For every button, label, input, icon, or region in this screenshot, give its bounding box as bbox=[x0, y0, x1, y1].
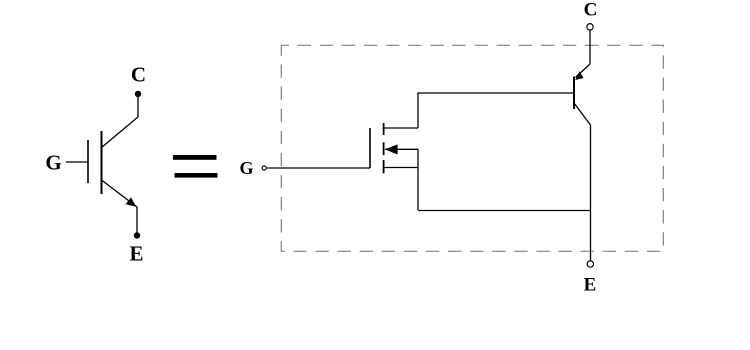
wire: IGBT collector lead bbox=[137, 94, 139, 117]
node G terminal circle bbox=[262, 166, 266, 170]
IGBT emitter arrowhead bbox=[126, 197, 137, 207]
wire: MOSFET M1 body lead bbox=[385, 148, 418, 150]
equivalence sign top bar bbox=[173, 155, 217, 160]
svg-text:C: C bbox=[131, 63, 146, 87]
wire: PNP Q1 emitter diagonal bbox=[576, 64, 591, 78]
wire: IGBT emitter lead bbox=[136, 207, 138, 235]
wire: MOSFET M1 drain lead bbox=[384, 127, 418, 129]
svg-text:G: G bbox=[45, 151, 61, 175]
svg-text:E: E bbox=[584, 275, 597, 296]
IGBT body bar bbox=[101, 131, 103, 194]
node C terminal circle bbox=[587, 24, 593, 30]
wire: bottom bus to PNP collector bbox=[418, 210, 591, 212]
MOSFET M1 gate bar bbox=[369, 128, 371, 168]
equivalence sign bottom bar bbox=[175, 173, 218, 178]
wire: PNP Q1 collector diagonal bbox=[574, 103, 591, 125]
node E terminal circle bbox=[587, 261, 593, 267]
wire: MOSFET drain to PNP base bbox=[418, 92, 573, 94]
svg-text:E: E bbox=[129, 241, 143, 265]
PNP Q1 base bar bbox=[573, 77, 575, 110]
MOSFET M1 channel segment drain bbox=[383, 123, 385, 135]
MOSFET M1 channel segment body bbox=[383, 142, 385, 155]
wire: MOSFET M1 source lead bbox=[384, 167, 418, 169]
wire: IGBT gate lead bbox=[66, 161, 88, 163]
IGBT collector terminal dot bbox=[135, 91, 141, 97]
PNP Q1 emitter arrowhead bbox=[575, 71, 583, 80]
MOSFET M1 channel segment source bbox=[383, 160, 385, 173]
wire: PNP collector to E terminal bbox=[590, 125, 592, 261]
IGBT emitter terminal dot bbox=[134, 232, 140, 238]
IGBT gate bar bbox=[87, 140, 89, 183]
wire: drain riser bbox=[417, 92, 419, 128]
wire: source/body down lead bbox=[417, 149, 419, 210]
svg-text:G: G bbox=[239, 158, 253, 178]
wire: C terminal to PNP emitter bbox=[589, 30, 591, 64]
MOSFET M1 body arrowhead bbox=[385, 144, 398, 154]
svg-text:C: C bbox=[584, 0, 598, 21]
dashed equivalent-circuit boundary box bbox=[281, 45, 663, 251]
wire: IGBT emitter diagonal bbox=[102, 180, 138, 207]
wire: gate lead from G terminal bbox=[267, 167, 370, 169]
wire: IGBT collector diagonal bbox=[102, 117, 139, 148]
